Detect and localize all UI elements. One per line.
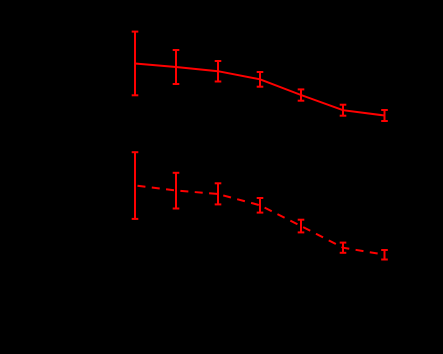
series 1 error bar at point 5 [298, 89, 305, 100]
series 2 error bar at point 3 [215, 183, 222, 204]
series 2 error bar at point 2 [173, 173, 180, 209]
series 1 error bar at point 7 [381, 110, 388, 121]
series 1 error bar at point 2 [173, 50, 180, 84]
series 2 error bar at point 1 [132, 152, 139, 219]
series 1 error bar at point 1 [132, 32, 139, 96]
series 2 error bar at point 5 [298, 220, 305, 233]
series 2 error bar at point 4 [257, 198, 264, 213]
series 1 error bar at point 3 [215, 61, 222, 82]
series 2 error bar at point 7 [381, 250, 388, 260]
series 2 error bar at point 6 [340, 243, 347, 253]
series 1 error bar at point 4 [257, 72, 264, 87]
series 2 dashed red curve [135, 186, 385, 255]
series 1 error bar at point 6 [340, 105, 347, 116]
series 1 solid red curve [135, 64, 385, 116]
